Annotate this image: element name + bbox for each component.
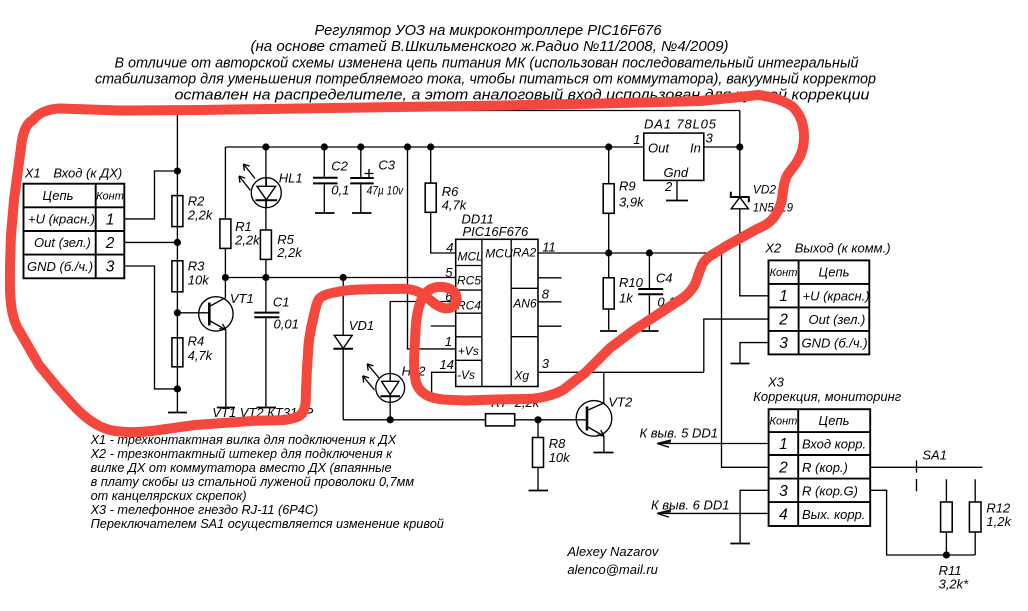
- svg-text:1: 1: [633, 132, 640, 147]
- svg-text:14: 14: [440, 357, 454, 372]
- svg-text:3: 3: [706, 131, 714, 146]
- node R10 junction: [605, 249, 612, 256]
- svg-text:GND (б./ч.): GND (б./ч.): [27, 259, 93, 274]
- resistor R12: [969, 479, 1012, 555]
- wire R6 to MCL pin4: [431, 212, 456, 253]
- wire X3 pin1 arrow to DD1 pin5: [640, 426, 769, 448]
- ground (X3 pin3): [730, 543, 750, 545]
- node VD2 top junction: [736, 143, 743, 150]
- svg-text:C3: C3: [378, 158, 395, 173]
- svg-text:стабилизатор для уменьшения по: стабилизатор для уменьшения потребляемог…: [95, 71, 876, 87]
- wire VD2 to X2 pin1: [740, 209, 769, 296]
- voltage regulator DA1 78L05: [644, 117, 717, 181]
- op-amp U1 : microcontroller DD11 PIC16F676: [456, 212, 538, 387]
- svg-text:C4: C4: [656, 271, 673, 286]
- svg-text:10k: 10k: [188, 273, 210, 288]
- resistor R10: [603, 253, 643, 309]
- ground (VT1 emitter): [217, 407, 235, 409]
- wire X2 pin2 to VT2 collector: [704, 319, 769, 372]
- ground (C3): [352, 212, 372, 214]
- node RC5/R1 junction: [222, 274, 229, 281]
- svg-text:Конт: Конт: [769, 416, 797, 428]
- svg-text:X2: X2: [764, 241, 782, 256]
- node R11 bottom junction: [943, 551, 950, 558]
- ground (X2 pin3): [731, 363, 750, 365]
- svg-text:вилке ДХ от коммутатора вместо: вилке ДХ от коммутатора вместо ДХ (впаян…: [91, 461, 392, 475]
- svg-text:AN6: AN6: [512, 297, 537, 311]
- svg-text:R3: R3: [188, 259, 205, 274]
- resistor R1: [220, 219, 261, 248]
- svg-text:2: 2: [778, 460, 788, 477]
- svg-text:1,2k: 1,2k: [986, 514, 1012, 529]
- wire RC5 net row: [225, 277, 455, 279]
- wire X3 pin3r to R11/R12 bottom rail: [870, 490, 975, 555]
- svg-text:в плату скобы из стальной луже: в плату скобы из стальной луженой провол…: [91, 475, 415, 489]
- wire R1 bottom to RC5 net: [224, 248, 226, 277]
- svg-text:Регулятор УОЗ на микроконтролл: Регулятор УОЗ на микроконтроллере PIC16F…: [315, 23, 663, 39]
- node VT1 base junction: [174, 309, 181, 316]
- wire X3 pin2 to SA1: [870, 466, 982, 468]
- wire top bus right drop: [739, 111, 741, 198]
- wire VT2 emitter to ground: [603, 436, 605, 453]
- svg-text:Конт: Конт: [96, 190, 124, 202]
- svg-text:alenco@mail.ru: alenco@mail.ru: [567, 562, 658, 577]
- svg-text:R (кор.G): R (кор.G): [802, 484, 858, 499]
- connector X1: [24, 166, 125, 279]
- node X1.1 junction: [174, 167, 181, 174]
- node RC5/VD1 junction: [340, 274, 347, 281]
- wire left vertical divider chain: [176, 111, 178, 413]
- svg-text:VT1: VT1: [230, 291, 254, 306]
- node +Vs feeder junction: [404, 143, 411, 150]
- svg-text:3,9k: 3,9k: [619, 195, 645, 210]
- wire rail to +Vs pin: [408, 147, 456, 349]
- wire VT1 collector to RC5 net: [224, 278, 226, 298]
- svg-text:11: 11: [542, 240, 556, 255]
- ground (DA1): [666, 200, 688, 202]
- diode VD2 1N5819: [731, 183, 794, 215]
- wire DA1 In to VD2 node: [704, 146, 740, 148]
- wire power rail +12V row: [225, 146, 643, 148]
- capacitor C1: [254, 278, 299, 408]
- wire X3 pin3 to ground: [740, 490, 769, 543]
- svg-text:47µ 10v: 47µ 10v: [367, 184, 404, 198]
- node HL1 top junction: [262, 143, 269, 150]
- resistor R9: [603, 147, 645, 213]
- wire VT1 emitter down: [225, 330, 227, 408]
- wire RA2 pin11 to X3 pin2: [538, 253, 769, 467]
- svg-text:Вход корр.: Вход корр.: [802, 437, 866, 452]
- svg-text:In: In: [690, 141, 701, 156]
- ground (R8): [529, 490, 549, 492]
- svg-text:Gnd: Gnd: [664, 165, 689, 180]
- wire HL2 to bottom rail: [389, 402, 391, 420]
- LED HL2: [363, 364, 427, 403]
- capacitor C2: [313, 147, 349, 213]
- svg-text:1k: 1k: [619, 291, 634, 306]
- resistor R8: [533, 420, 572, 468]
- svg-text:HL1: HL1: [279, 171, 303, 186]
- svg-text:0,1: 0,1: [331, 183, 349, 198]
- ground (R10): [600, 330, 617, 332]
- svg-text:R9: R9: [619, 179, 636, 194]
- svg-text:4: 4: [779, 507, 788, 524]
- pin stub right unlabeled: [538, 325, 562, 327]
- switch SA1: [917, 448, 947, 492]
- svg-text:R2: R2: [188, 194, 205, 209]
- svg-text:SA1: SA1: [922, 448, 947, 463]
- connector X2: [764, 241, 890, 355]
- transistor VT1: [199, 291, 254, 331]
- svg-text:+U (красн.): +U (красн.): [803, 289, 870, 304]
- wire top bus: [177, 110, 739, 112]
- svg-text:4: 4: [446, 240, 453, 255]
- svg-text:4,7k: 4,7k: [442, 198, 468, 213]
- svg-text:X2 - трезконтактный штекер для: X2 - трезконтактный штекер для подключен…: [90, 447, 394, 461]
- svg-text:Цепь: Цепь: [819, 413, 850, 428]
- node RC5/R5/C1 junction: [262, 274, 269, 281]
- svg-text:К выв. 6 DD1: К выв. 6 DD1: [651, 498, 729, 513]
- capacitor C3: [350, 147, 404, 213]
- svg-text:X3: X3: [767, 375, 785, 390]
- svg-text:4,7k: 4,7k: [188, 348, 214, 363]
- wire X2 pin3 to ground: [740, 343, 769, 364]
- svg-text:VD1: VD1: [349, 318, 374, 333]
- LED HL1: [239, 164, 303, 208]
- ground (VT2 emitter): [594, 452, 614, 454]
- wire X1 pin1 to node: [124, 171, 177, 219]
- svg-text:2: 2: [664, 179, 673, 194]
- svg-text:1: 1: [779, 436, 788, 453]
- wire bottom rail right of R7: [515, 419, 587, 421]
- svg-text:Вход (к ДХ): Вход (к ДХ): [53, 166, 122, 181]
- svg-text:VT2: VT2: [608, 395, 633, 410]
- svg-text:1: 1: [445, 334, 452, 349]
- ground (C1): [257, 407, 277, 409]
- node R6 top junction: [427, 143, 434, 150]
- svg-text:2,2k: 2,2k: [276, 245, 303, 260]
- svg-text:RA2: RA2: [513, 246, 537, 260]
- svg-text:3: 3: [779, 335, 788, 352]
- svg-text:X1: X1: [24, 166, 41, 181]
- svg-text:X3 - телефонное гнездо RJ-11 (: X3 - телефонное гнездо RJ-11 (6P4C): [90, 503, 319, 517]
- svg-text:3: 3: [106, 259, 115, 276]
- ground (C2): [315, 212, 335, 214]
- diode VD1: [333, 278, 374, 349]
- wire rail to R1: [224, 147, 226, 219]
- transistor VT2: [576, 395, 633, 437]
- svg-text:Out: Out: [648, 141, 670, 156]
- wire HL1 branch: [265, 147, 267, 230]
- wire X1 pin2 to node: [124, 241, 177, 243]
- ground (left chain): [168, 412, 187, 414]
- svg-text:R8: R8: [549, 436, 566, 451]
- node C2 top junction: [321, 143, 328, 150]
- svg-text:C1: C1: [273, 295, 290, 310]
- svg-text:Out (зел.): Out (зел.): [34, 235, 91, 250]
- wire DA1 gnd pin: [676, 180, 678, 200]
- pin stub left unlabeled: [431, 325, 456, 327]
- svg-text:Out (зел.): Out (зел.): [809, 312, 866, 327]
- svg-text:2,2k: 2,2k: [187, 208, 214, 223]
- wire VT1 base: [177, 312, 209, 314]
- svg-text:C2: C2: [331, 159, 348, 174]
- svg-text:GND (б./ч.): GND (б./ч.): [802, 336, 868, 351]
- wire Xg pin3 row: [538, 371, 704, 373]
- svg-text:Цепь: Цепь: [43, 188, 74, 203]
- node R9 top junction: [605, 143, 612, 150]
- connector X3: [753, 375, 902, 527]
- title note text: [95, 23, 876, 104]
- svg-text:2: 2: [105, 235, 115, 252]
- svg-text:Alexey Nazarov: Alexey Nazarov: [566, 544, 660, 559]
- node C4 junction: [646, 249, 653, 256]
- svg-text:В отличие от авторской схемы и: В отличие от авторской схемы изменена це…: [115, 55, 859, 71]
- svg-text:+Vs: +Vs: [458, 344, 479, 358]
- wire VD1 to bottom rail: [342, 349, 344, 420]
- svg-text:3: 3: [542, 356, 550, 371]
- svg-text:R10: R10: [619, 275, 644, 290]
- node X1.3 junction: [174, 385, 181, 392]
- wire X3 pin4 arrow to DD1 pin6: [651, 498, 769, 518]
- resistor R3: [172, 259, 210, 292]
- svg-text:RC5: RC5: [457, 274, 481, 288]
- capacitor C4: [638, 253, 675, 331]
- svg-text:К выв. 5 DD1: К выв. 5 DD1: [640, 426, 718, 441]
- svg-text:3: 3: [779, 483, 788, 500]
- svg-text:MCU: MCU: [485, 247, 513, 261]
- resistor R7: [486, 395, 541, 426]
- svg-text:Цепь: Цепь: [819, 265, 850, 280]
- ground (C4): [642, 330, 659, 332]
- svg-text:Переключателем SA1 осуществляе: Переключателем SA1 осуществляется измене…: [91, 517, 444, 531]
- wire RC4 to HL2: [390, 302, 456, 374]
- svg-text:-Vs: -Vs: [457, 368, 475, 382]
- node C3 top junction: [357, 143, 364, 150]
- svg-text:Конт: Конт: [770, 267, 798, 279]
- wire -Vs to ground: [432, 372, 456, 397]
- wire R10 to ground: [608, 309, 610, 331]
- resistor R5: [260, 230, 303, 260]
- svg-text:Выход (к комм.): Выход (к комм.): [795, 241, 891, 256]
- svg-text:R (кор.): R (кор.): [802, 460, 848, 475]
- svg-text:DA1 78L05: DA1 78L05: [644, 117, 717, 132]
- svg-text:8: 8: [542, 287, 550, 302]
- node R8 top junction: [534, 416, 541, 423]
- svg-text:0,01: 0,01: [274, 317, 299, 332]
- svg-text:1: 1: [779, 288, 788, 305]
- resistor R11: [939, 479, 970, 591]
- svg-text:+U (красн.): +U (красн.): [28, 212, 95, 227]
- wire bottom rail left of R7: [343, 419, 485, 421]
- wire R9 bottom to pin11 row: [608, 213, 610, 253]
- svg-text:от канцелярских скрепок): от канцелярских скрепок): [91, 489, 247, 503]
- wire R5 bottom: [265, 259, 267, 277]
- svg-text:(на основе статей В.Шкильменск: (на основе статей В.Шкильменского ж.Ради…: [251, 39, 729, 55]
- ground (-Vs): [423, 396, 441, 398]
- svg-text:Xg: Xg: [513, 369, 529, 383]
- pin stub right AN6 pin8: [538, 301, 562, 303]
- svg-text:R4: R4: [188, 334, 205, 349]
- red annotation loop: [10, 95, 804, 432]
- resistor R4: [172, 334, 214, 367]
- resistor R6: [425, 147, 468, 213]
- wire X1 pin3 to lower node: [124, 266, 177, 389]
- node X1.2 junction: [174, 239, 181, 246]
- wire R8 to ground: [537, 467, 539, 490]
- svg-text:Вых. корр.: Вых. корр.: [802, 507, 865, 522]
- svg-text:10k: 10k: [549, 450, 571, 465]
- svg-text:1: 1: [106, 212, 115, 229]
- svg-text:MCL: MCL: [458, 250, 483, 264]
- pin stub right below RA2: [538, 277, 562, 279]
- svg-text:3,2k*: 3,2k*: [939, 577, 970, 592]
- note author: [566, 544, 660, 577]
- note text block: [90, 433, 444, 531]
- svg-text:2,2k: 2,2k: [234, 233, 261, 248]
- svg-text:PIC16F676: PIC16F676: [463, 224, 530, 239]
- svg-text:Коррекция, мониторинг: Коррекция, мониторинг: [753, 389, 902, 404]
- wire VT2 collector riser: [603, 372, 605, 403]
- svg-text:VD2: VD2: [753, 183, 777, 197]
- svg-text:2: 2: [778, 312, 788, 329]
- node HL2 bottom junction: [387, 416, 394, 423]
- resistor R2: [172, 194, 214, 227]
